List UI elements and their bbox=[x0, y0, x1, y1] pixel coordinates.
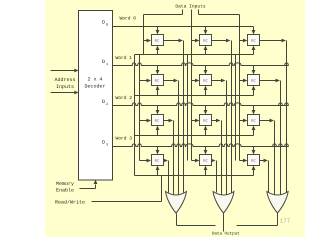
svg-text:Data Inputs: Data Inputs bbox=[175, 3, 206, 9]
binary cell BC21 bbox=[200, 115, 212, 126]
svg-text:0: 0 bbox=[106, 24, 108, 28]
svg-text:BC: BC bbox=[203, 120, 208, 124]
data wire into BC11 left bbox=[192, 79, 200, 83]
data wire into BC21 left bbox=[192, 119, 200, 123]
label Word 1 bbox=[115, 55, 132, 61]
read/write row line 1 bbox=[135, 95, 254, 97]
word line 3 (Word 3) bbox=[113, 144, 289, 147]
decoder output label D2 bbox=[102, 99, 108, 107]
word line 2 (Word 2) bbox=[113, 103, 289, 106]
data wire into BC20 left bbox=[140, 119, 152, 123]
data wire into BC01 left bbox=[192, 39, 200, 43]
read/write row line 3 bbox=[135, 175, 254, 177]
data wire into BC30 left bbox=[140, 159, 152, 163]
data wire into BC00 left bbox=[144, 39, 152, 43]
svg-text:D: D bbox=[102, 59, 105, 65]
svg-text:1: 1 bbox=[106, 63, 108, 67]
read/write wire into BC11 bottom bbox=[204, 86, 208, 96]
data wire into BC32 left bbox=[240, 159, 248, 163]
svg-text:Data Output: Data Output bbox=[212, 232, 240, 236]
binary cell BC32 bbox=[248, 155, 260, 166]
label Memory Enable bbox=[56, 181, 74, 194]
memory enable wire bbox=[80, 180, 98, 189]
output wire from G1 bbox=[223, 214, 225, 232]
output wire from BC02 bbox=[260, 39, 287, 193]
output wire from BC12 bbox=[260, 79, 281, 195]
data input drop column 0 bbox=[143, 15, 145, 55]
svg-text:BC: BC bbox=[155, 120, 160, 124]
data input drop column 2 bbox=[239, 15, 241, 161]
address input A1 wire bbox=[51, 91, 79, 95]
svg-text:177: 177 bbox=[280, 217, 291, 224]
OR gate G0 bbox=[166, 192, 187, 214]
output wire from G0 bbox=[177, 214, 216, 226]
output wire from BC30 bbox=[164, 159, 169, 193]
decoder output label D1 bbox=[102, 59, 108, 67]
decoder output label D0 bbox=[102, 20, 108, 28]
select wire into BC20 top bbox=[156, 106, 160, 115]
data input drop column 1 bbox=[191, 10, 193, 161]
address input A0 wire bbox=[51, 69, 79, 73]
select wire into BC11 top bbox=[204, 66, 208, 75]
output wire from BC31 bbox=[211, 159, 217, 193]
read/write wire into BC31 bottom bbox=[204, 166, 208, 176]
read/write wire into BC32 bottom bbox=[252, 166, 256, 176]
data input header wire left hook bbox=[144, 10, 183, 15]
data wire into BC12 left bbox=[240, 79, 248, 83]
binary cell BC31 bbox=[200, 155, 212, 166]
page number 177 bbox=[280, 217, 291, 224]
select wire into BC32 top bbox=[252, 147, 256, 155]
OR gate G1 bbox=[213, 192, 234, 214]
output wire from BC22 bbox=[260, 119, 275, 195]
read/write wire into BC20 bottom bbox=[156, 126, 160, 136]
data chain column 2 bbox=[235, 55, 237, 161]
output wire from BC01 bbox=[212, 39, 232, 193]
select wire into BC31 top bbox=[204, 147, 208, 155]
word line 1 (Word 1) bbox=[113, 63, 289, 66]
svg-text:Word 3: Word 3 bbox=[115, 136, 132, 142]
binary cell BC01 bbox=[200, 35, 212, 46]
decoder output label D3 bbox=[102, 140, 108, 148]
svg-text:Word 0: Word 0 bbox=[119, 16, 136, 22]
svg-text:BC: BC bbox=[251, 160, 256, 164]
read/write row line 0 bbox=[135, 54, 254, 56]
svg-text:Enable: Enable bbox=[56, 188, 74, 194]
svg-text:Inputs: Inputs bbox=[56, 84, 74, 90]
data chain column 1 bbox=[187, 55, 189, 161]
svg-text:BC: BC bbox=[251, 40, 256, 44]
select wire into BC22 top bbox=[252, 106, 256, 115]
word line 0 (Word 0) bbox=[113, 26, 254, 28]
output wire from BC21 bbox=[212, 119, 222, 195]
read/write wire into BC30 bottom bbox=[156, 166, 160, 176]
data input header wire right hook bbox=[199, 10, 240, 15]
svg-text:D: D bbox=[102, 20, 105, 26]
output wire from BC10 bbox=[164, 79, 179, 195]
decoder U1 (2 x 4 decoder) bbox=[79, 11, 113, 181]
svg-text:BC: BC bbox=[251, 80, 256, 84]
read/write wire into BC00 bottom bbox=[156, 46, 160, 55]
read/write wire into BC12 bottom bbox=[252, 86, 256, 96]
svg-text:BC: BC bbox=[203, 80, 208, 84]
svg-text:Word 1: Word 1 bbox=[115, 55, 132, 61]
data wire into BC31 left bbox=[192, 159, 200, 163]
binary cell BC02 bbox=[248, 35, 260, 46]
svg-text:BC: BC bbox=[155, 80, 160, 84]
select wire into BC30 top bbox=[156, 147, 160, 155]
read/write chain vertical bbox=[134, 55, 136, 176]
svg-text:BC: BC bbox=[203, 40, 208, 44]
svg-text:Decoder: Decoder bbox=[84, 83, 105, 89]
binary cell BC22 bbox=[248, 115, 260, 126]
output wire from BC00 bbox=[164, 39, 184, 193]
label Data Inputs bbox=[175, 3, 206, 9]
svg-text:Address: Address bbox=[54, 77, 75, 83]
binary cell BC12 bbox=[248, 75, 260, 86]
read/write wire into BC22 bottom bbox=[252, 126, 256, 136]
OR gate G2 bbox=[267, 192, 288, 214]
svg-text:Memory: Memory bbox=[56, 181, 74, 187]
label Word 2 bbox=[115, 95, 132, 101]
select wire into BC01 top bbox=[204, 27, 208, 35]
output wire from BC11 bbox=[212, 79, 227, 195]
read/write wire into BC21 bottom bbox=[204, 126, 208, 136]
label Data Output bbox=[212, 232, 240, 236]
data wire into BC22 left bbox=[240, 119, 248, 123]
label Word 0 bbox=[119, 16, 136, 22]
label Read/Write bbox=[55, 200, 85, 206]
binary cell BC30 bbox=[152, 155, 164, 166]
select wire into BC10 top bbox=[156, 66, 160, 75]
read/write main wire bbox=[92, 176, 162, 202]
data wire into BC02 left bbox=[240, 39, 248, 43]
svg-text:BC: BC bbox=[155, 40, 160, 44]
svg-text:BC: BC bbox=[203, 160, 208, 164]
binary cell BC20 bbox=[152, 115, 164, 126]
binary cell BC11 bbox=[200, 75, 212, 86]
read/write wire into BC10 bottom bbox=[156, 86, 160, 96]
binary cell BC10 bbox=[152, 75, 164, 86]
data chain column 0 bbox=[140, 55, 144, 161]
output wire from G2 bbox=[237, 214, 278, 226]
output wire from BC20 bbox=[164, 119, 174, 195]
data wire into BC10 left bbox=[140, 79, 152, 83]
select wire into BC12 top bbox=[252, 66, 256, 75]
select wire into BC02 top bbox=[252, 27, 256, 35]
svg-text:D: D bbox=[102, 99, 105, 105]
read/write wire into BC01 bottom bbox=[204, 46, 208, 55]
svg-text:2: 2 bbox=[106, 103, 108, 107]
svg-text:Read/Write: Read/Write bbox=[55, 200, 85, 206]
output wire from BC32 bbox=[260, 159, 269, 193]
label Address Inputs bbox=[54, 77, 75, 90]
read/write wire into BC02 bottom bbox=[252, 46, 256, 55]
select wire into BC00 top bbox=[156, 27, 160, 35]
select wire into BC21 top bbox=[204, 106, 208, 115]
svg-text:BC: BC bbox=[251, 120, 256, 124]
svg-text:BC: BC bbox=[155, 160, 160, 164]
svg-text:Word 2: Word 2 bbox=[115, 95, 132, 101]
svg-text:D: D bbox=[102, 140, 105, 146]
label Word 3 bbox=[115, 136, 132, 142]
svg-text:2 x 4: 2 x 4 bbox=[87, 76, 102, 82]
read/write row line 2 bbox=[135, 135, 254, 137]
svg-text:3: 3 bbox=[106, 144, 108, 148]
binary cell BC00 bbox=[152, 35, 164, 46]
